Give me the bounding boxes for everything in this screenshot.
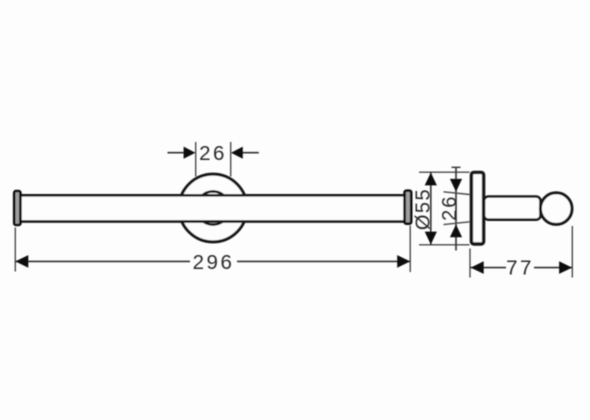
dim 296 extension line right — [409, 226, 411, 273]
O55 dim line — [430, 172, 432, 245]
dim 26 (side) end tick — [452, 166, 461, 168]
O55 arrows — [425, 173, 437, 186]
dim 77 extension right — [571, 226, 573, 278]
O55 extension line bottom — [419, 244, 470, 246]
svg-text:Ø55: Ø55 — [412, 188, 434, 230]
dim 26 (side) extension top — [444, 192, 470, 195]
rail bar 296 — [17, 195, 408, 221]
left end cap — [14, 191, 20, 225]
svg-text:26: 26 — [199, 142, 227, 165]
dim 77 line — [471, 267, 507, 269]
ball end — [540, 193, 572, 225]
dim 296 line — [15, 260, 190, 262]
right end cap — [405, 191, 412, 224]
post circle (26) — [196, 191, 229, 224]
svg-text:26: 26 — [439, 195, 461, 221]
svg-text:296: 296 — [193, 251, 235, 274]
dim 296 extension line left — [14, 228, 16, 272]
svg-text:77: 77 — [506, 257, 534, 280]
extension line left of dim 26 (front) — [195, 142, 197, 177]
extension line right of dim 26 (front) — [230, 142, 232, 177]
O55 extension line top — [419, 171, 470, 173]
dim 26 (front) left leader — [168, 152, 185, 154]
dim 77 extension left — [469, 249, 471, 278]
wall plate (side profile) — [471, 172, 483, 244]
dim 26 (side) extension bottom — [444, 222, 470, 225]
dim 77 arrows — [471, 261, 484, 274]
dim 26 (front) right leader — [242, 152, 259, 154]
dim 26 (side) arrows — [450, 179, 462, 192]
dim 26 (side) line — [455, 167, 457, 250]
mounting flange circle (O55) — [179, 174, 247, 242]
dim 296 arrows — [15, 255, 28, 268]
arm (side) — [484, 197, 541, 220]
